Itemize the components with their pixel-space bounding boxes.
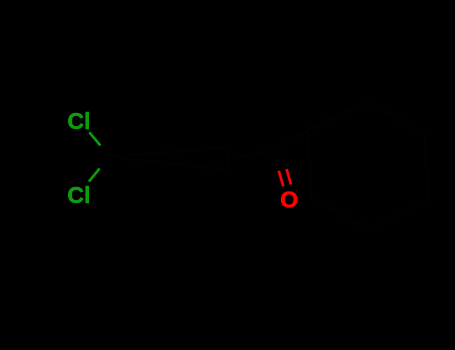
svg-text:Cl: Cl	[67, 108, 90, 134]
wire: cyclopropane ring bond C1-C3	[111, 157, 228, 170]
svg-text:Cl: Cl	[67, 182, 90, 208]
wire: black half of top C-Cl bond	[100, 146, 111, 158]
wire: green half-bond from bottom Cl to C1	[89, 168, 100, 181]
wire: phenyl ring (invisible)	[308, 102, 428, 230]
wire: red C=O double bond line 2	[287, 169, 292, 185]
wire: cyclopropane ring bond C1-C2 (black, invisible on black)	[111, 147, 228, 157]
wire: black halves of C=O double bond	[274, 154, 286, 171]
wire: cyclopropane ring bond C2-C3	[227, 147, 230, 170]
svg-text:O: O	[280, 187, 298, 213]
wire: bond carbonyl carbon to phenyl ipso carbon	[271, 130, 308, 151]
wire: bond C2 to carbonyl carbon	[228, 151, 271, 159]
wire: green half-bond from top Cl to C1	[89, 132, 100, 145]
wire: black half of bottom C-Cl bond	[100, 157, 111, 168]
wire: red C=O double bond line 1 (half near O)	[279, 171, 284, 187]
